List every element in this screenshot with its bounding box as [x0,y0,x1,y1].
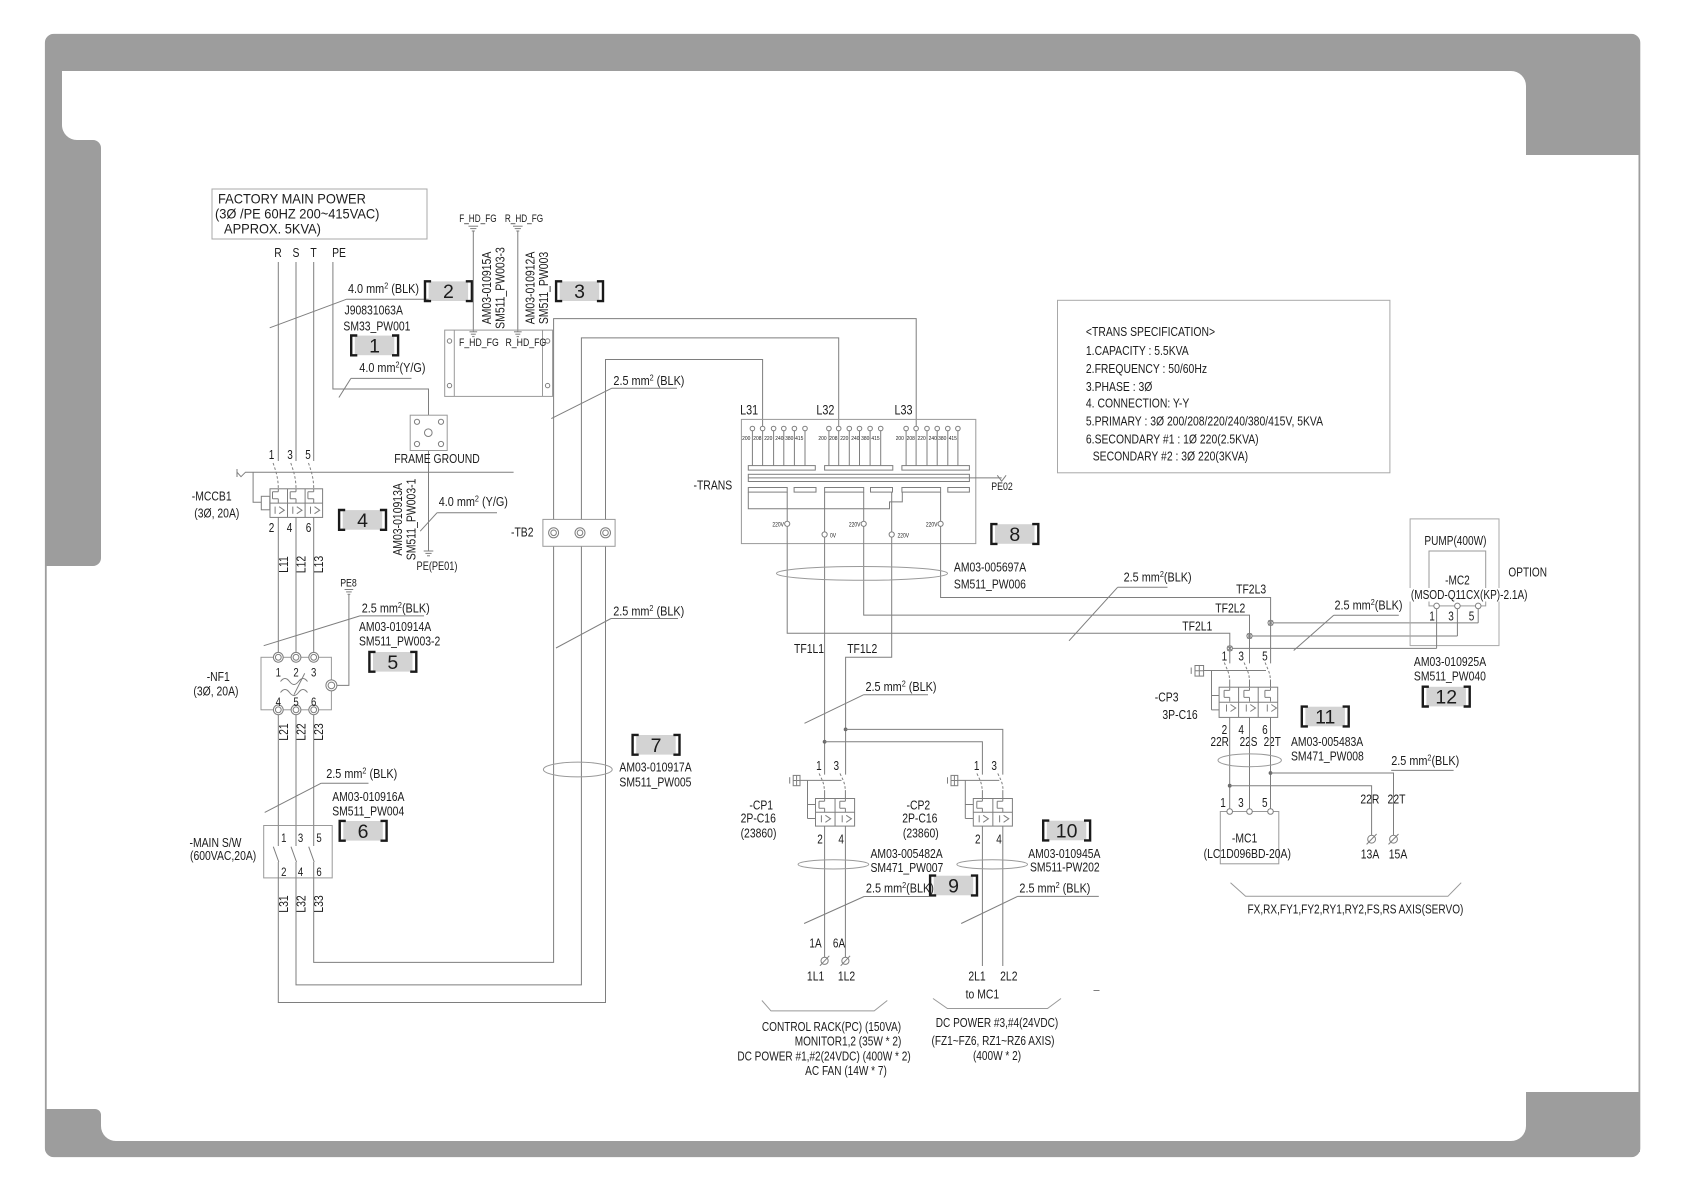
svg-text:4: 4 [287,522,293,535]
svg-text:DC POWER #1,#2(24VDC) (400W *: DC POWER #1,#2(24VDC) (400W * 2) [737,1051,911,1064]
svg-text:3: 3 [991,760,997,773]
tap connector TF2L2 [1247,633,1252,638]
svg-text:-NF1: -NF1 [207,670,230,684]
svg-text:4.0 mm2(Y/G): 4.0 mm2(Y/G) [359,360,425,375]
svg-text:3: 3 [1238,797,1244,810]
wire S [295,262,297,461]
svg-text:L22: L22 [296,723,309,740]
svg-text:AM03-005483A: AM03-005483A [1291,735,1363,749]
svg-text:3.PHASE : 3Ø: 3.PHASE : 3Ø [1086,380,1152,394]
wire 2L1 [981,826,983,966]
cable ellipse CP3 [1218,754,1281,767]
svg-text:10: 10 [1056,821,1078,843]
svg-text:2P-C16: 2P-C16 [741,811,777,825]
svg-text:5: 5 [305,449,311,462]
wire 2L2 [1002,826,1004,966]
svg-text:1L1: 1L1 [807,969,824,983]
svg-text:2.5 mm2(BLK): 2.5 mm2(BLK) [1335,597,1403,612]
wire TB2-2 to L32 tap [581,338,838,520]
callout 2 [425,281,472,303]
svg-text:(3Ø, 20A): (3Ø, 20A) [194,506,239,520]
svg-text:CONTROL RACK(PC) (150VA): CONTROL RACK(PC) (150VA) [762,1021,901,1034]
svg-text:SM511_PW040: SM511_PW040 [1414,669,1486,683]
svg-text:415: 415 [949,435,957,441]
svg-text:L12: L12 [296,556,309,573]
svg-text:6: 6 [311,696,316,709]
breaker CP3 [1155,651,1281,750]
svg-text:220V: 220V [898,533,910,540]
wire L33 [314,546,554,962]
svg-text:220V: 220V [926,522,938,529]
svg-text:220V: 220V [772,522,784,529]
svg-text:TF2L2: TF2L2 [1215,601,1245,615]
svg-text:-MC1: -MC1 [1232,831,1257,845]
svg-text:AM03-010945A: AM03-010945A [1028,847,1100,861]
svg-text:11: 11 [1315,707,1335,729]
svg-text:3: 3 [298,832,303,845]
svg-text:-MC2: -MC2 [1445,575,1470,588]
svg-text:OPTION: OPTION [1508,567,1547,580]
callout 3 [556,281,603,303]
svg-text:1: 1 [281,832,286,845]
svg-text:200: 200 [818,435,826,441]
svg-text:L32: L32 [816,402,834,417]
cable ellipse CP2 [957,860,1028,869]
breaker CP2 [902,760,1012,847]
svg-text:8: 8 [1009,524,1020,546]
svg-text:MONITOR1,2 (35W * 2): MONITOR1,2 (35W * 2) [795,1036,902,1049]
svg-text:2.5 mm2(BLK): 2.5 mm2(BLK) [1124,569,1192,584]
svg-text:2: 2 [281,866,286,879]
contactor MC2 [1429,551,1486,606]
svg-text:4. CONNECTION: Y-Y: 4. CONNECTION: Y-Y [1086,397,1190,411]
svg-text:TF2L3: TF2L3 [1236,582,1266,596]
svg-text:6: 6 [316,866,321,879]
svg-text:AM03-010916A: AM03-010916A [332,790,404,804]
svg-text:TF1L1: TF1L1 [794,642,824,656]
svg-text:208: 208 [829,435,837,441]
svg-text:2.5 mm2(BLK): 2.5 mm2(BLK) [362,600,430,615]
svg-text:2: 2 [817,834,823,847]
svg-text:4: 4 [298,866,303,879]
svg-text:3: 3 [311,667,316,680]
svg-text:AM03-010913A: AM03-010913A [392,483,405,556]
wire 22R [1229,717,1231,808]
svg-text:1.CAPACITY : 5.5KVA: 1.CAPACITY : 5.5KVA [1086,344,1189,358]
callout 12 [1423,687,1470,709]
wire TB2-3 to L31 tap [606,360,763,520]
svg-text:AM03-010925A: AM03-010925A [1414,655,1486,669]
svg-text:2.5 mm2 (BLK): 2.5 mm2 (BLK) [1019,880,1090,895]
wire 1L2 [844,826,846,957]
junction 22R branch [1228,784,1232,788]
svg-text:(MSOD-Q11CX(KP)-2.1A): (MSOD-Q11CX(KP)-2.1A) [1411,589,1528,602]
svg-text:PUMP(400W): PUMP(400W) [1424,535,1486,548]
svg-text:5: 5 [387,652,398,674]
svg-text:415: 415 [795,435,803,441]
wire L32 [296,546,581,985]
svg-text:1L2: 1L2 [838,969,855,983]
brace control rack [762,1001,887,1011]
svg-text:2.5 mm2 (BLK): 2.5 mm2 (BLK) [613,603,684,618]
svg-text:200: 200 [896,435,904,441]
svg-text:R_HD_FG: R_HD_FG [505,213,543,225]
svg-text:L31: L31 [278,895,291,912]
svg-text:J90831063A: J90831063A [345,303,404,317]
svg-text:4: 4 [357,510,368,532]
wire MC2-3 [1456,609,1458,636]
svg-text:(3Ø /PE 60HZ 200~415VAC): (3Ø /PE 60HZ 200~415VAC) [215,206,379,221]
svg-text:2L2: 2L2 [1000,969,1017,983]
svg-text:L23: L23 [313,723,326,740]
svg-text:-TB2: -TB2 [511,525,534,539]
svg-text:380: 380 [938,435,946,441]
frame ground plate [410,415,447,450]
svg-text:(3Ø, 20A): (3Ø, 20A) [193,684,238,698]
svg-text:SM511_PW003-1: SM511_PW003-1 [406,479,419,561]
junction TF1L2 branch [844,728,848,732]
callout 8 [991,524,1038,546]
svg-text:L33: L33 [313,895,326,912]
svg-text:TF1L2: TF1L2 [847,642,877,656]
svg-text:2.5 mm2 (BLK): 2.5 mm2 (BLK) [613,373,684,388]
svg-text:4.0 mm2 (Y/G): 4.0 mm2 (Y/G) [439,494,508,509]
svg-text:PE02: PE02 [991,481,1013,493]
svg-text:L21: L21 [278,723,291,740]
svg-text:3P-C16: 3P-C16 [1162,708,1198,722]
wire L23 [313,715,315,826]
svg-text:-CP3: -CP3 [1155,690,1179,704]
transformer TRANS [694,402,976,543]
callout 5 [369,652,416,674]
svg-text:AM03-010917A: AM03-010917A [619,760,691,774]
svg-text:PE8: PE8 [340,578,357,590]
cable ellipse trans [776,567,947,581]
junction 22T branch [1269,771,1273,775]
callout 4 [339,510,386,532]
svg-text:3: 3 [287,449,293,462]
ground PE(PE01) [424,551,434,556]
svg-text:FACTORY MAIN POWER: FACTORY MAIN POWER [218,191,366,206]
svg-text:2.FREQUENCY : 50/60Hz: 2.FREQUENCY : 50/60Hz [1086,362,1207,376]
svg-text:L31: L31 [740,402,758,417]
svg-text:22S: 22S [1240,736,1258,749]
wire L12 [295,517,297,652]
svg-text:(400W * 2): (400W * 2) [973,1050,1021,1063]
svg-text:22R: 22R [1360,792,1379,806]
pump box [1410,519,1499,646]
svg-text:SM511_PW003-2: SM511_PW003-2 [359,634,440,648]
svg-text:AC FAN (14W * 7): AC FAN (14W * 7) [805,1065,887,1078]
contactor MC1 [1204,797,1291,864]
svg-text:3: 3 [1238,651,1244,664]
svg-text:(23860): (23860) [741,826,777,840]
svg-text:1: 1 [276,667,281,680]
svg-text:0V: 0V [830,533,836,540]
callout 7 [633,735,680,757]
svg-text:5: 5 [1262,651,1268,664]
svg-text:2: 2 [293,667,298,680]
fuse 15A [1390,835,1398,843]
svg-text:240: 240 [929,435,937,441]
wire R [277,262,279,461]
svg-text:L32: L32 [296,895,309,912]
svg-text:PE: PE [332,246,346,260]
callout 1 [351,335,398,357]
wire 22T [1270,717,1272,808]
wire L31 [278,546,605,1002]
svg-text:(600VAC,20A): (600VAC,20A) [190,849,256,863]
wire L22 [295,715,297,826]
svg-text:208: 208 [907,435,915,441]
svg-text:(FZ1~FZ6, RZ1~RZ6 AXIS): (FZ1~FZ6, RZ1~RZ6 AXIS) [931,1035,1054,1048]
tap connector TF2L3 [1268,620,1273,625]
svg-text:<TRANS SPECIFICATION>: <TRANS SPECIFICATION> [1086,325,1215,339]
svg-text:(23860): (23860) [903,826,939,840]
svg-text:22T: 22T [1264,736,1281,749]
svg-text:L13: L13 [313,556,326,573]
connector HD-FG box [445,330,553,396]
label AM03-010912A SM511_PW003 [525,251,552,324]
callout 11 [1302,707,1349,729]
svg-text:5.PRIMARY : 3Ø 200/208/220/240: 5.PRIMARY : 3Ø 200/208/220/240/380/415V,… [1086,414,1323,428]
cable ellipse CP1 [798,860,869,869]
cable ellipse TB2 [543,762,612,777]
svg-text:SM511_PW006: SM511_PW006 [954,577,1026,591]
svg-text:1: 1 [369,335,380,357]
svg-text:FX,RX,FY1,FY2,RY1,RY2,FS,RS AX: FX,RX,FY1,FY2,RY1,RY2,FS,RS AXIS(SERVO) [1248,904,1464,917]
svg-text:240: 240 [775,435,783,441]
ground PE02 [969,477,1001,479]
svg-text:T: T [310,246,316,260]
svg-text:S: S [293,246,300,260]
svg-text:5: 5 [1262,797,1268,810]
svg-text:15A: 15A [1389,847,1408,861]
brace servo axis [1231,883,1462,897]
svg-text:5: 5 [293,696,298,709]
wire L11 [277,517,279,652]
svg-text:2.5 mm2 (BLK): 2.5 mm2 (BLK) [866,679,937,694]
stray dash [1094,990,1100,992]
switch MAIN S/W [190,826,333,880]
svg-text:PE(PE01): PE(PE01) [417,561,458,573]
svg-text:2: 2 [269,522,275,535]
svg-text:2P-C16: 2P-C16 [902,811,938,825]
svg-text:22T: 22T [1388,792,1406,806]
filter NF1 [193,652,337,714]
svg-text:2.5 mm2 (BLK): 2.5 mm2 (BLK) [326,766,397,781]
svg-text:SM511_PW003: SM511_PW003 [538,252,551,324]
wire L13 [313,517,315,652]
svg-text:L11: L11 [278,556,291,573]
wire MC2-1 [1436,609,1438,649]
svg-text:SM511_PW003-3: SM511_PW003-3 [495,247,508,329]
svg-text:-TRANS: -TRANS [694,478,733,492]
callout 9 [930,876,977,898]
svg-text:200: 200 [742,435,750,441]
svg-text:1: 1 [1429,611,1435,624]
wire TB2-1 to L33 tap [554,319,917,520]
svg-text:4: 4 [838,834,844,847]
svg-text:22R: 22R [1211,736,1229,749]
svg-text:R: R [274,246,282,260]
breaker MCCB1 [192,449,514,535]
junction TF1L1 branch [823,740,827,744]
svg-text:SM511_PW005: SM511_PW005 [619,775,691,789]
svg-text:2.5 mm2(BLK): 2.5 mm2(BLK) [866,880,934,895]
svg-text:3: 3 [574,281,585,303]
wire sec E to TF2L3 [941,526,1271,663]
svg-text:SM33_PW001: SM33_PW001 [343,319,410,333]
breaker CP1 [741,760,855,847]
wire 22S [1249,717,1251,808]
wire L21 [277,715,279,826]
svg-text:-MCCB1: -MCCB1 [192,489,232,503]
svg-text:4.0 mm2 (BLK): 4.0 mm2 (BLK) [348,281,419,296]
svg-text:AM03-010914A: AM03-010914A [359,620,431,634]
svg-text:1: 1 [816,760,822,773]
svg-text:AM03-005697A: AM03-005697A [954,560,1026,574]
svg-text:6A: 6A [833,938,846,951]
wire MC2-5 [1477,609,1479,623]
svg-text:R_HD_FG: R_HD_FG [506,337,547,349]
callout 10 [1043,821,1090,843]
svg-text:380: 380 [861,435,869,441]
svg-text:2: 2 [975,834,981,847]
wire sec A to TF2L1 [787,526,1230,663]
svg-text:220: 220 [840,435,848,441]
svg-text:7: 7 [651,735,662,757]
svg-text:380: 380 [785,435,793,441]
svg-text:5: 5 [316,832,321,845]
svg-text:2: 2 [443,281,454,303]
label AM03-010913A SM511_PW003-1 [392,479,419,561]
svg-text:1: 1 [974,760,980,773]
svg-text:6: 6 [306,522,312,535]
svg-text:2L1: 2L1 [968,969,985,983]
svg-text:2.5 mm2(BLK): 2.5 mm2(BLK) [1391,753,1459,768]
svg-text:12: 12 [1435,687,1457,709]
svg-text:9: 9 [948,876,959,898]
svg-text:FRAME GROUND: FRAME GROUND [394,452,479,466]
svg-text:208: 208 [753,435,761,441]
callout 6 [340,821,387,843]
svg-text:to MC1: to MC1 [966,987,1000,1001]
svg-text:APPROX. 5KVA): APPROX. 5KVA) [224,221,321,236]
svg-text:L33: L33 [895,402,913,417]
svg-text:6: 6 [358,821,369,843]
wire sec C to TF2L2 [864,526,1250,663]
svg-text:SECONDARY #2 : 3Ø 220(3KVA): SECONDARY #2 : 3Ø 220(3KVA) [1093,450,1248,464]
svg-text:415: 415 [871,435,879,441]
svg-text:4: 4 [276,696,281,709]
tap connector TF2L1 [1227,646,1232,651]
svg-text:TF2L1: TF2L1 [1182,619,1212,633]
svg-text:DC POWER #3,#4(24VDC): DC POWER #3,#4(24VDC) [936,1017,1059,1030]
fuse 13A [1368,835,1376,843]
svg-text:220: 220 [917,435,925,441]
trans specification box [1058,300,1390,473]
svg-text:13A: 13A [1361,847,1380,861]
wire sec D TF1L2 [846,537,892,775]
svg-text:1: 1 [269,449,275,462]
svg-text:240: 240 [851,435,859,441]
svg-text:1: 1 [1222,651,1228,664]
svg-text:6.SECONDARY #1 : 1Ø 220(2.5KVA: 6.SECONDARY #1 : 1Ø 220(2.5KVA) [1086,432,1259,446]
svg-text:3: 3 [1448,611,1454,624]
svg-text:3: 3 [834,760,840,773]
svg-text:5: 5 [1469,611,1475,624]
wire PE [333,262,429,551]
svg-text:1: 1 [1220,797,1226,810]
wire sec B TF1L1 [824,537,826,775]
svg-text:1A: 1A [809,938,822,951]
svg-text:AM03-010915A: AM03-010915A [481,251,494,324]
svg-text:AM03-005482A: AM03-005482A [871,847,943,861]
svg-text:(LC1D096BD-20A): (LC1D096BD-20A) [1204,847,1291,861]
svg-text:AM03-010912A: AM03-010912A [525,251,538,324]
svg-text:SM511-PW202: SM511-PW202 [1030,860,1100,874]
label AM03-010915A SM511_PW003-3 [481,247,508,329]
brace dc power 34 [933,999,1061,1009]
svg-text:F_HD_FG: F_HD_FG [459,337,499,349]
svg-text:SM471_PW008: SM471_PW008 [1291,749,1364,763]
svg-text:SM471_PW007: SM471_PW007 [871,861,944,875]
wire 1L1 [824,826,826,957]
svg-text:220: 220 [764,435,772,441]
svg-text:SM511_PW004: SM511_PW004 [332,804,404,818]
svg-text:220V: 220V [849,522,861,529]
factory main power box [212,189,427,239]
wire T [313,262,315,461]
svg-text:F_HD_FG: F_HD_FG [459,213,496,225]
svg-text:4: 4 [996,834,1002,847]
